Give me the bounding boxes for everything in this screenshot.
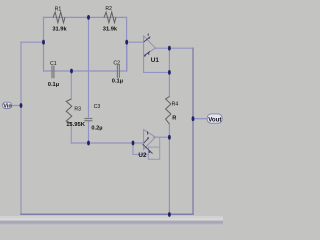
node U1 plus: [125, 40, 128, 45]
resistor R3: [66, 99, 72, 124]
svg-text:C3: C3: [94, 104, 101, 110]
resistor R1: [53, 12, 65, 23]
svg-text:R: R: [172, 115, 176, 121]
wire left riser x21: [20, 42, 22, 214]
svg-text:0.2µ: 0.2µ: [91, 126, 102, 132]
node R4 rail: [168, 212, 171, 217]
node fb R4: [168, 70, 171, 75]
op-amp U1: [144, 34, 160, 65]
svg-text:R3: R3: [74, 106, 81, 112]
node Vout: [192, 116, 195, 121]
svg-text:31.9k: 31.9k: [52, 26, 67, 32]
wire U1 output y48.2: [155, 47, 193, 49]
wire U2 fb drop x133: [133, 143, 148, 155]
svg-text:Vin: Vin: [3, 104, 11, 110]
wire R3 lead bottom: [70, 124, 72, 144]
node C1C2-R3: [70, 69, 73, 74]
node U2 in: [132, 141, 135, 146]
labels and values: [48, 6, 179, 132]
resistor R4: [166, 97, 171, 125]
svg-text:0.1µ: 0.1µ: [112, 79, 123, 85]
wire U1 feedback row y72.4: [144, 71, 170, 73]
wire U2 fb box: [148, 147, 159, 159]
node U2 out R4: [168, 135, 171, 140]
wire riser node A x43.5: [43, 17, 45, 71]
capacitor C1: [51, 66, 54, 79]
wire U1 input y42: [127, 41, 144, 43]
wire Vin stub: [12, 105, 22, 107]
svg-text:Vout: Vout: [208, 116, 221, 123]
svg-text:31.9k: 31.9k: [103, 26, 118, 32]
resistor R2: [104, 12, 116, 23]
wire C2 corner to node: [126, 42, 128, 71]
wire R2 riser x126.6: [126, 17, 128, 70]
svg-text:R4: R4: [172, 101, 179, 107]
wire Vout stub: [193, 118, 207, 120]
wire top row R1-R2: [44, 16, 127, 18]
terminal Vin: [3, 102, 12, 110]
wire C3 lead bottom: [88, 121, 90, 143]
svg-text:R1: R1: [55, 6, 62, 12]
wire U2 output y137.2: [154, 136, 170, 138]
svg-text:0.1µ: 0.1µ: [48, 82, 59, 88]
wire RC bottom row y143: [71, 142, 143, 144]
wire U1 feedback drop x143.6: [143, 56, 145, 73]
wire C row y71: [44, 70, 127, 72]
svg-text:C1: C1: [50, 61, 57, 67]
svg-text:U1: U1: [151, 57, 160, 64]
wire R3 lead top x71.3: [70, 71, 72, 99]
capacitor C2: [117, 65, 120, 78]
wire right riser x193: [192, 48, 194, 214]
node Vin/riser: [20, 103, 23, 108]
node A branch: [42, 40, 45, 45]
node C3 bottom: [87, 141, 90, 146]
svg-text:R2: R2: [105, 6, 112, 12]
svg-text:C2: C2: [113, 61, 120, 67]
svg-text:U2: U2: [138, 152, 147, 159]
wire R4 axis top: [168, 48, 170, 96]
wire U2 fb box tap: [159, 137, 161, 147]
wire Vin branch y42: [21, 41, 44, 43]
capacitor C3: [84, 118, 92, 121]
wire C3 riser top x88.5: [88, 17, 90, 117]
terminal Vout: [207, 114, 222, 123]
wire R4 axis bottom: [168, 124, 170, 215]
op-amp U2: [138, 130, 155, 159]
wire bottom rail y214.3: [21, 213, 193, 215]
node R1R2: [87, 15, 90, 20]
node U1 out: [168, 46, 171, 51]
svg-text:15.95K: 15.95K: [66, 122, 86, 128]
